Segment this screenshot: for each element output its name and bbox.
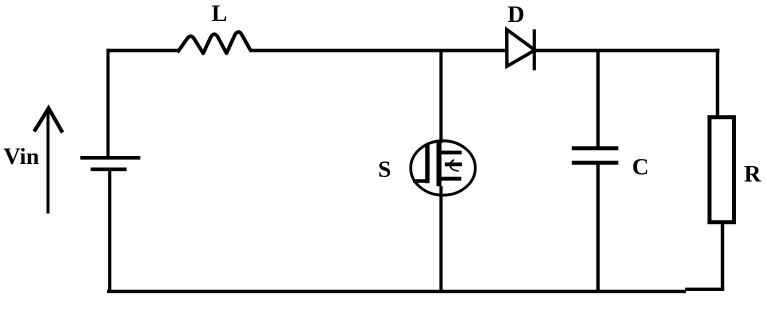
diode D triangle (anode) (507, 30, 535, 67)
battery Vin top plate (+) (80, 156, 140, 160)
wire top-right horizontal (diode cathode to output node, junctions at C and R) (535, 49, 720, 52)
wire MOSFET drain (top wire down to S) (439, 49, 442, 143)
transistor S body stub (445, 162, 462, 166)
diode D cathode bar (533, 29, 536, 70)
transistor S gate foot (413, 179, 428, 183)
transistor S body circle (411, 141, 476, 195)
wire MOSFET source (S down to bottom rail) (439, 186, 442, 293)
battery Vin bottom plate (-) (91, 168, 127, 172)
svg-text:Vin: Vin (4, 144, 40, 170)
wire bottom rail right segment (685, 288, 724, 291)
transistor S drain stub (441, 151, 462, 155)
wire top-left horizontal (node between Vin+ and L) (107, 49, 180, 52)
wire capacitor top (output node down to C) (596, 49, 599, 148)
svg-text:R: R (744, 162, 762, 188)
transistor S source stub (441, 177, 461, 181)
wire left vertical upper (Vin+ up to top-left corner) (106, 49, 109, 157)
Vin arrow shaft (47, 110, 50, 214)
wire capacitor bottom (C down to bottom rail) (596, 163, 599, 293)
svg-text:S: S (378, 157, 391, 183)
transistor S channel bar (437, 142, 442, 187)
capacitor C top plate (572, 146, 619, 150)
inductor L (178, 32, 251, 53)
svg-text:C: C (632, 154, 649, 180)
svg-text:L: L (212, 1, 228, 27)
wire left vertical lower (Vin- down to bottom rail) (108, 171, 111, 294)
capacitor C bottom plate (572, 161, 619, 165)
wire right vertical upper (output node down to R) (716, 49, 719, 118)
resistor R (box) (710, 117, 735, 222)
wire top-middle horizontal (L to diode anode, junction with S drain) (250, 49, 507, 52)
wire right vertical lower (R to bottom rail) (721, 222, 724, 291)
Vin arrowhead (34, 108, 62, 132)
svg-text:D: D (508, 2, 525, 28)
transistor S gate bar (425, 145, 429, 183)
transistor S body arrow (450, 160, 454, 168)
wire bottom rail left segment (ground return to Vin-) (107, 290, 686, 293)
